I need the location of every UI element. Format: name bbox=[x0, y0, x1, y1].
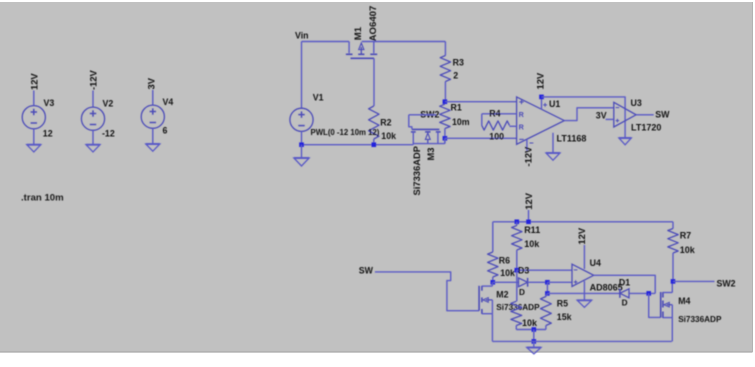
resistor R5 (vertical) bbox=[541, 293, 552, 329]
wire 3V stub bbox=[606, 118, 614, 120]
ground (V4) bbox=[146, 144, 160, 151]
svg-text:V3: V3 bbox=[44, 98, 55, 108]
junction M4 gate bbox=[646, 291, 651, 296]
U4 minus mark bbox=[574, 269, 578, 271]
net label 12V (V3) bbox=[29, 73, 40, 90]
value -12 (V2) bbox=[102, 129, 115, 139]
svg-text:12V: 12V bbox=[523, 192, 534, 209]
U1 ground stub bbox=[552, 133, 554, 153]
wire U1 output bbox=[564, 108, 614, 121]
U1 minus input mark bbox=[519, 138, 523, 140]
svg-text:M1: M1 bbox=[353, 26, 364, 40]
net label SW (M2) bbox=[359, 265, 374, 275]
svg-text:V1: V1 bbox=[313, 93, 324, 103]
ground (V1) bbox=[294, 158, 309, 166]
svg-text:R6: R6 bbox=[499, 256, 510, 266]
svg-text:R1: R1 bbox=[451, 102, 462, 112]
svg-text:-12V: -12V bbox=[88, 69, 99, 90]
wire M2 drain to D3 bbox=[493, 281, 519, 283]
svg-text:3V: 3V bbox=[596, 110, 607, 120]
label R4 bbox=[489, 108, 500, 118]
label V4 bbox=[163, 97, 174, 107]
svg-text:D3: D3 bbox=[518, 265, 529, 275]
value 100 (R4) bbox=[489, 131, 504, 141]
svg-text:12V: 12V bbox=[535, 72, 546, 89]
pin label R upper bbox=[519, 110, 525, 119]
svg-text:SW2: SW2 bbox=[717, 279, 736, 289]
net label 3V (U3) bbox=[596, 110, 607, 120]
resistor R6 bbox=[488, 222, 498, 282]
label M1 bbox=[353, 26, 364, 40]
label Si7336ADP (M4) bbox=[678, 315, 722, 324]
svg-text:.tran 10m: .tran 10m bbox=[21, 193, 64, 204]
op-amp U1 (LT1168) bbox=[517, 97, 565, 144]
wire Vin to M1 bbox=[302, 41, 350, 43]
wire 12V top rail bbox=[493, 221, 673, 223]
label U1 bbox=[549, 99, 560, 109]
svg-text:3V: 3V bbox=[146, 77, 157, 89]
op-amp U4 (AD8065) bbox=[572, 264, 594, 286]
svg-text:R: R bbox=[519, 110, 525, 119]
U3 minus mark bbox=[616, 107, 620, 109]
junction V1 bottom bbox=[299, 142, 304, 147]
svg-text:U4: U4 bbox=[590, 258, 601, 268]
wire bottom rail V1-M3 bbox=[302, 144, 414, 146]
svg-text:12: 12 bbox=[43, 129, 53, 139]
transistor M4 (Si7336ADP) bbox=[649, 281, 673, 341]
net label SW (U3 out) bbox=[655, 110, 670, 120]
svg-text:-12: -12 bbox=[102, 129, 115, 139]
label M4 bbox=[678, 296, 690, 306]
wire X to rail bbox=[533, 330, 535, 342]
svg-text:Vin: Vin bbox=[295, 31, 309, 41]
label R5 bbox=[557, 298, 568, 308]
svg-text:10k: 10k bbox=[524, 239, 540, 249]
label R3 bbox=[453, 57, 464, 67]
svg-text:V2: V2 bbox=[103, 99, 114, 109]
svg-text:M2: M2 bbox=[496, 289, 508, 299]
label Si7336ADP (M3) bbox=[411, 146, 422, 196]
U1 R pin upper bbox=[482, 113, 517, 115]
value 6 (V4) bbox=[163, 126, 168, 136]
wire node to U4 plus bbox=[547, 281, 572, 283]
value 10k (R11) bbox=[524, 239, 540, 249]
label R6 bbox=[499, 256, 510, 266]
wire Vin vertical bbox=[301, 42, 303, 109]
U1 V+ mark bbox=[543, 103, 547, 107]
svg-text:AD8065: AD8065 bbox=[590, 283, 623, 293]
label D1 bbox=[619, 277, 630, 287]
wire 12V drop bbox=[528, 210, 530, 222]
junction R1 bottom bbox=[443, 136, 448, 141]
svg-text:10k: 10k bbox=[522, 318, 538, 328]
value PWL (V1) bbox=[311, 128, 380, 137]
svg-text:SW: SW bbox=[359, 265, 374, 275]
value 10k (X) bbox=[522, 318, 538, 328]
pin label R lower bbox=[519, 123, 525, 132]
net label 12V (U4) bbox=[576, 227, 587, 244]
canvas edge shading bbox=[0, 351, 753, 353]
label Si7336ADP (M2) bbox=[496, 303, 540, 312]
svg-text:2: 2 bbox=[453, 71, 458, 81]
svg-text:LT1720: LT1720 bbox=[631, 123, 661, 133]
svg-text:SW: SW bbox=[655, 110, 670, 120]
voltage source V2 bbox=[81, 91, 104, 145]
transistor M1 (AO6407) bbox=[346, 42, 377, 59]
ground (U3) bbox=[619, 138, 631, 145]
label U3 bbox=[631, 98, 642, 108]
label V3 bbox=[44, 98, 55, 108]
label M2 bbox=[496, 289, 508, 299]
resistor R2 bbox=[369, 106, 379, 145]
diode D3 bbox=[519, 278, 528, 287]
U1 supply stub -12V bbox=[526, 140, 528, 151]
svg-text:-12V: -12V bbox=[523, 146, 534, 167]
voltage source V4 bbox=[141, 90, 164, 144]
svg-text:M4: M4 bbox=[678, 296, 690, 306]
label V1 bbox=[313, 93, 324, 103]
ground (bottom) bbox=[527, 348, 541, 354]
value 2 (R3) bbox=[453, 71, 458, 81]
wire node to U1 plus bbox=[445, 101, 517, 103]
label AO6407 (M1) bbox=[368, 6, 379, 42]
wire U3 output bbox=[636, 114, 654, 116]
junction X bottom bbox=[532, 327, 537, 332]
svg-text:D1: D1 bbox=[619, 277, 630, 287]
ground (U4) bbox=[577, 300, 591, 307]
svg-text:6: 6 bbox=[163, 126, 168, 136]
U4 ground stub bbox=[583, 281, 585, 300]
U4 plus mark bbox=[574, 280, 578, 284]
voltage source V1 bbox=[290, 108, 313, 144]
label M3 bbox=[425, 147, 436, 160]
wire U4 output bbox=[594, 275, 656, 293]
junction rail 12V bbox=[526, 220, 531, 225]
svg-text:R3: R3 bbox=[453, 57, 464, 67]
transistor M3 (Si7336ADP) bbox=[409, 115, 445, 145]
wire D1 to M4 gate bbox=[629, 292, 655, 294]
resistor 10k (vertical) bbox=[511, 301, 522, 329]
U1 R pin lower bbox=[510, 125, 517, 127]
svg-text:D: D bbox=[519, 288, 525, 297]
svg-text:15k: 15k bbox=[557, 312, 572, 322]
diode D1 bbox=[620, 289, 629, 298]
junction R11 bottom bbox=[515, 268, 520, 273]
label D3 bbox=[518, 265, 529, 275]
wire X bottom bbox=[516, 329, 546, 331]
U3 plus mark bbox=[616, 119, 620, 123]
transistor M2 (Si7336ADP) bbox=[479, 282, 492, 341]
svg-text:R5: R5 bbox=[557, 298, 568, 308]
svg-text:R11: R11 bbox=[524, 225, 540, 235]
label R1 bbox=[451, 102, 462, 112]
ground (V2) bbox=[86, 145, 100, 152]
svg-text:12V: 12V bbox=[29, 73, 40, 90]
net label -12V (V2) bbox=[88, 69, 99, 90]
resistor R7 bbox=[668, 222, 678, 282]
svg-text:10k: 10k bbox=[381, 131, 396, 141]
resistor R11 bbox=[512, 222, 522, 270]
label R7 bbox=[680, 230, 692, 240]
label R2 bbox=[380, 118, 391, 128]
label D (D1) bbox=[622, 298, 628, 307]
label U4 bbox=[590, 258, 601, 268]
wire node to D1 bbox=[547, 292, 620, 294]
value 10k (R6) bbox=[500, 268, 515, 278]
net label SW2 (out) bbox=[717, 279, 736, 289]
resistor R4 bbox=[482, 114, 510, 130]
wire bottom rail bbox=[492, 340, 671, 342]
wire gnd stub bbox=[533, 341, 535, 347]
wire M1 gate down bbox=[373, 58, 375, 106]
value 10k (R7) bbox=[680, 245, 696, 255]
svg-text:Si7336ADP: Si7336ADP bbox=[678, 315, 722, 324]
svg-text:PWL(0 -12 10m 12): PWL(0 -12 10m 12) bbox=[311, 128, 380, 137]
svg-text:U1: U1 bbox=[549, 99, 560, 109]
label R11 bbox=[524, 225, 540, 235]
net label 12V (rail) bbox=[523, 192, 534, 209]
svg-text:10k: 10k bbox=[680, 245, 696, 255]
svg-text:LT1168: LT1168 bbox=[557, 134, 587, 144]
junction R2 bottom bbox=[372, 142, 377, 147]
value 10m (R1) bbox=[452, 117, 470, 127]
wire R11 node down bbox=[516, 270, 518, 301]
resistor R1 bbox=[440, 104, 450, 143]
voltage source V3 bbox=[22, 91, 45, 145]
junction D3 out bbox=[545, 280, 550, 285]
U1 plus input mark bbox=[519, 100, 523, 104]
net label SW2 (M3 gate) bbox=[420, 109, 439, 119]
svg-text:M3: M3 bbox=[425, 147, 436, 160]
junction bottom rail bbox=[532, 339, 537, 344]
U1 V- mark bbox=[530, 142, 534, 144]
spice directive .tran 10m bbox=[21, 193, 64, 204]
wire node down bbox=[546, 282, 548, 293]
wire 12V rail to U3 bbox=[542, 97, 626, 138]
wire SW2 stub bbox=[409, 114, 436, 116]
net label -12V (U1) bbox=[523, 146, 534, 167]
value 15k (R5) bbox=[557, 312, 572, 322]
value 10k (R2) bbox=[381, 131, 396, 141]
wire to U4 minus bbox=[517, 269, 572, 271]
U1 supply stub 12V bbox=[541, 97, 543, 110]
label AD8065 bbox=[590, 283, 623, 293]
junction R3-R1 bbox=[443, 99, 448, 104]
svg-text:U3: U3 bbox=[631, 98, 642, 108]
junction R5 top bbox=[545, 291, 550, 296]
resistor R3 bbox=[440, 42, 450, 102]
svg-text:10k: 10k bbox=[500, 268, 515, 278]
ground (U1) bbox=[546, 153, 560, 160]
net label 3V (V4) bbox=[146, 77, 157, 89]
label LT1168 bbox=[557, 134, 587, 144]
svg-text:Si7336ADP: Si7336ADP bbox=[411, 146, 422, 196]
wire R1 node to U1 minus bbox=[445, 137, 517, 139]
wire SW to M2 gate bbox=[375, 272, 479, 311]
junction R6 bottom bbox=[491, 280, 496, 285]
junction U1 12V bbox=[539, 95, 544, 100]
svg-text:10m: 10m bbox=[452, 117, 470, 127]
junction rail R11 bbox=[515, 220, 520, 225]
label LT1720 bbox=[631, 123, 661, 133]
svg-text:Si7336ADP: Si7336ADP bbox=[496, 303, 540, 312]
svg-text:R2: R2 bbox=[380, 118, 391, 128]
value 12 (V3) bbox=[43, 129, 53, 139]
wire M1 drain to R3 bbox=[362, 41, 446, 43]
wire to SW2 bbox=[673, 280, 715, 282]
label V2 bbox=[103, 99, 114, 109]
svg-text:D: D bbox=[622, 298, 628, 307]
junction R7 bottom bbox=[671, 279, 676, 284]
wire D3 to node bbox=[528, 281, 548, 283]
label D (D3) bbox=[519, 288, 525, 297]
net label Vin bbox=[295, 31, 309, 41]
wire V1 ground stub bbox=[301, 145, 303, 158]
svg-text:R: R bbox=[519, 123, 525, 132]
svg-text:V4: V4 bbox=[163, 97, 174, 107]
svg-text:AO6407: AO6407 bbox=[368, 6, 379, 42]
net label 12V (U1) bbox=[535, 72, 546, 89]
svg-text:R7: R7 bbox=[680, 230, 692, 240]
svg-text:100: 100 bbox=[489, 131, 504, 141]
ground (V3) bbox=[27, 145, 41, 152]
svg-text:R4: R4 bbox=[489, 108, 500, 118]
svg-text:12V: 12V bbox=[576, 227, 587, 244]
comparator U3 (LT1720) bbox=[614, 102, 636, 127]
U4 supply stub bbox=[583, 245, 585, 269]
